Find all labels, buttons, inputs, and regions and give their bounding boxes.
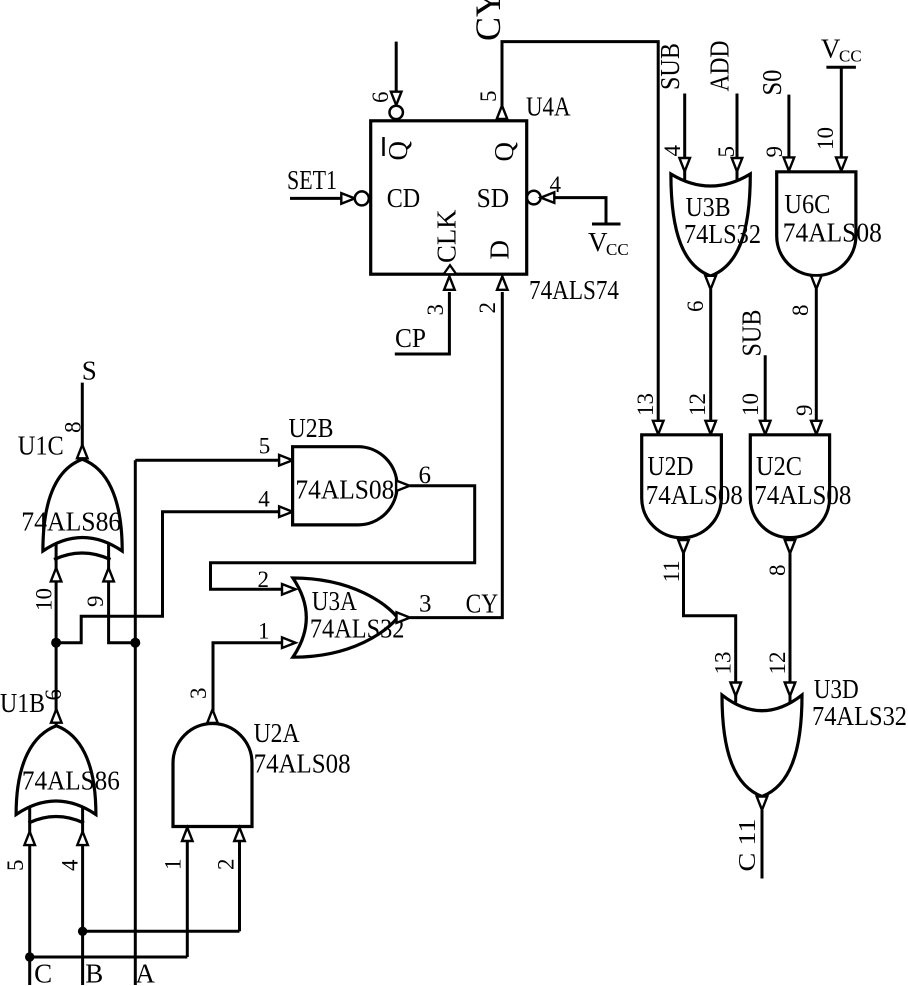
U4A label <box>526 92 571 122</box>
arrow U3A output <box>397 612 411 623</box>
Vcc bar top right <box>826 66 856 69</box>
pin number 11 U2D out <box>659 560 684 582</box>
arrow U2A output <box>207 710 218 724</box>
svg-text:U2C: U2C <box>756 451 802 481</box>
svg-text:13: 13 <box>711 652 736 675</box>
or-gate U3A body <box>293 578 398 657</box>
pin number 1 U3A <box>258 619 270 644</box>
svg-text:2: 2 <box>475 302 500 314</box>
pin number 9 U1C <box>83 596 108 608</box>
net label CY' <box>468 0 508 41</box>
svg-text:4: 4 <box>660 145 685 157</box>
arrow U1C output <box>77 445 88 459</box>
wire S0 to U6C pin9 <box>787 95 790 159</box>
svg-text:U3B: U3B <box>686 192 731 222</box>
wire A-line to U2B pin5 <box>135 459 281 462</box>
arrow U2A pin1 <box>182 828 193 842</box>
pin number 1 U2A <box>161 859 186 871</box>
xor-gate U1C body <box>43 459 122 551</box>
svg-text:CC: CC <box>839 47 862 66</box>
pin number 5 U2B <box>259 434 271 459</box>
svg-text:4: 4 <box>550 172 562 197</box>
and-gate U6C body <box>777 172 856 276</box>
arrow U6C output <box>811 276 822 290</box>
svg-text:D: D <box>485 240 515 260</box>
pin number 2 U2A <box>214 859 239 871</box>
arrow U2D pin12 <box>705 421 716 435</box>
svg-text:74ALS08: 74ALS08 <box>754 480 851 510</box>
wire U6C out to U2C pin9 <box>815 289 818 421</box>
svg-text:12: 12 <box>685 393 710 416</box>
wire ADD to U3B pin5 <box>736 94 739 181</box>
net label SUB <box>655 43 685 90</box>
arrow U1C pin10 <box>51 568 62 582</box>
svg-text:5: 5 <box>476 91 501 103</box>
arrow U2A pin2 <box>234 828 245 842</box>
wire U1C pin9 down <box>109 543 136 643</box>
pin number 6 <box>368 92 393 104</box>
Qbar output bubble <box>390 106 403 119</box>
pin number 5 U3B <box>714 146 739 158</box>
svg-text:Q: Q <box>383 141 413 161</box>
U3B label <box>686 192 731 222</box>
arrow Q output <box>497 106 508 120</box>
svg-text:8: 8 <box>788 305 813 317</box>
arrow into Qbar bubble <box>391 92 402 106</box>
U4A pin SD label <box>477 183 510 213</box>
U3A label <box>312 586 357 616</box>
svg-text:74LS32: 74LS32 <box>684 219 761 249</box>
D flip-flop U4A body <box>371 121 527 274</box>
arrow U2D output <box>678 540 689 554</box>
arrow U3A pin2 <box>282 584 296 595</box>
wire U1B pin4 B-line <box>81 807 84 986</box>
svg-text:74ALS86: 74ALS86 <box>22 766 120 796</box>
arrow U1B pin4 <box>77 832 88 846</box>
74ALS08 value label U6C <box>783 218 882 248</box>
svg-text:Q: Q <box>489 142 519 162</box>
U2C label <box>756 451 802 481</box>
net label SUB second <box>737 310 767 357</box>
junction dot C-line <box>25 952 34 961</box>
svg-text:ADD: ADD <box>705 41 735 92</box>
svg-text:6: 6 <box>683 301 708 313</box>
wire Vcc to U6C pin10 <box>840 67 843 158</box>
svg-text:C: C <box>34 959 52 986</box>
xor-gate U1B extra curve <box>29 817 85 824</box>
pin number 3 U3A out <box>419 591 432 618</box>
svg-text:2: 2 <box>214 859 239 871</box>
pin number 6 U1B out <box>41 689 66 701</box>
pin number 4 U1B <box>58 859 83 871</box>
U1B label <box>0 688 45 718</box>
pin number 13 U2D <box>633 393 658 416</box>
pin number 3 <box>423 304 448 316</box>
pin number 9 U2C <box>792 405 817 417</box>
pin number 2 U3A <box>258 567 270 592</box>
SD input bubble <box>527 191 541 205</box>
svg-text:74ALS08: 74ALS08 <box>783 218 882 248</box>
arrow U3D pin13 <box>730 683 741 697</box>
pin number 8 U6C out <box>788 305 813 317</box>
svg-text:11: 11 <box>659 560 684 582</box>
net label ADD <box>705 41 735 92</box>
svg-text:74ALS08: 74ALS08 <box>254 749 351 779</box>
wire S to U1C out <box>81 383 84 458</box>
74ALS32 value label U3A <box>310 614 405 644</box>
svg-text:74ALS32: 74ALS32 <box>310 614 405 644</box>
arrow U6C pin10 <box>836 157 847 171</box>
junction dot pin9/A-line <box>130 638 140 648</box>
arrow U2B output <box>396 481 410 492</box>
svg-text:9: 9 <box>762 146 787 158</box>
net label S <box>82 356 97 386</box>
wire U3D out C11 <box>761 810 764 879</box>
svg-text:U2D: U2D <box>648 451 694 481</box>
svg-text:SD: SD <box>477 183 510 213</box>
svg-text:9: 9 <box>792 405 817 417</box>
svg-text:5: 5 <box>714 146 739 158</box>
wire SUB2 to U2C pin10 <box>764 355 767 421</box>
svg-text:CY′: CY′ <box>468 0 508 41</box>
wire CY from U3A to D pin <box>410 292 502 618</box>
and-gate U2B body <box>293 447 398 525</box>
arrow U6C pin9 <box>784 157 795 171</box>
wire CP to CLK <box>395 292 450 354</box>
U2D label <box>648 451 694 481</box>
arrow U3D pin12 <box>785 683 796 697</box>
svg-text:3: 3 <box>186 688 211 700</box>
74ALS08 value label U2C <box>754 480 851 510</box>
net label C 11 <box>735 819 761 872</box>
svg-text:CP: CP <box>395 323 426 353</box>
svg-text:U2A: U2A <box>254 718 300 748</box>
svg-text:1: 1 <box>161 859 186 871</box>
svg-text:5: 5 <box>3 860 28 872</box>
arrow U2D pin13 <box>653 421 664 435</box>
arrow U2B pin4 <box>279 506 293 517</box>
arrow U3D output <box>757 797 768 811</box>
svg-text:CC: CC <box>606 240 629 259</box>
xor-gate U1C extra curve <box>54 553 111 560</box>
svg-text:V: V <box>821 34 841 64</box>
U6C label <box>784 189 830 219</box>
junction dot pin10/U1B/U2Bpin4 <box>51 638 61 648</box>
bus label C <box>34 959 52 986</box>
arrow U3A pin1 <box>282 637 296 648</box>
svg-text:A: A <box>135 959 155 986</box>
svg-text:U4A: U4A <box>526 92 571 122</box>
svg-text:13: 13 <box>633 393 658 416</box>
pin number 8 U2C out <box>765 565 790 577</box>
arrow U1C pin9 <box>103 568 114 582</box>
wire jog to U2B pin4 <box>56 512 281 643</box>
svg-text:U3D: U3D <box>814 674 859 704</box>
svg-text:C 11: C 11 <box>735 819 761 872</box>
svg-text:5: 5 <box>259 434 271 459</box>
arrow U3B pin5 <box>732 158 743 172</box>
svg-text:9: 9 <box>83 596 108 608</box>
svg-text:SUB: SUB <box>737 310 767 357</box>
74ALS08 value label U2D <box>646 480 743 510</box>
74ALS08 value label U2B <box>295 475 394 505</box>
arrow U1B output <box>51 709 62 723</box>
power label Vcc <box>588 227 629 259</box>
svg-text:74ALS74: 74ALS74 <box>529 275 619 305</box>
svg-text:U1C: U1C <box>18 431 64 461</box>
U2B label <box>289 413 334 443</box>
pin number 10 U6C <box>813 127 838 150</box>
svg-text:CY: CY <box>466 589 499 619</box>
or-gate U3B body <box>671 174 750 276</box>
wire U2A out to U3A pin1 stub <box>212 643 215 724</box>
svg-text:U1B: U1B <box>0 688 45 718</box>
wire SD to Vcc <box>555 198 607 224</box>
svg-text:8: 8 <box>765 565 790 577</box>
pin number 4 U3B <box>660 145 685 157</box>
svg-text:V: V <box>588 227 608 257</box>
svg-text:8: 8 <box>61 422 86 434</box>
svg-text:CD: CD <box>387 183 421 213</box>
arrow D input <box>497 276 508 290</box>
arrow CLK <box>444 276 455 290</box>
wire U1B pin5 C-line <box>28 807 31 986</box>
wire U2D out to U3D pin13 <box>684 554 736 703</box>
wire A-line vertical <box>134 460 137 985</box>
arrow U2C output <box>785 540 796 554</box>
svg-text:U3A: U3A <box>312 586 357 616</box>
pin number 2 <box>475 302 500 314</box>
svg-text:S: S <box>82 356 97 386</box>
U4A pin Q label <box>489 142 519 162</box>
wire Qbar pin 6 stub <box>395 42 398 92</box>
net label CY <box>466 589 499 619</box>
svg-text:74ALS86: 74ALS86 <box>21 507 121 537</box>
wire U2A out to U3A pin1 <box>213 643 283 723</box>
wire Q pin5 to CY' net to U2D pin13 <box>502 42 658 421</box>
pin number 4 U2B <box>258 487 270 512</box>
pin number 6 U3B out <box>683 301 708 313</box>
svg-text:3: 3 <box>419 591 432 618</box>
svg-text:SET1: SET1 <box>287 165 337 195</box>
Vcc bar at SD <box>592 223 621 226</box>
svg-text:4: 4 <box>258 487 270 512</box>
wire U3B out to U2D pin12 <box>709 289 712 421</box>
wire B jog to U2A pin2 <box>238 828 241 931</box>
svg-text:3: 3 <box>423 304 448 316</box>
pin number 5 U1B <box>3 860 28 872</box>
clock wedge on CLK pin <box>444 265 457 274</box>
arrow SET1 <box>341 193 355 204</box>
pin number 3 U2A out <box>186 688 211 700</box>
U4A pin CD label <box>387 183 421 213</box>
svg-text:74ALS08: 74ALS08 <box>295 475 394 505</box>
arrow U1B pin5 <box>24 832 35 846</box>
CD input bubble <box>355 191 369 205</box>
svg-text:4: 4 <box>58 859 83 871</box>
svg-text:10: 10 <box>813 127 838 150</box>
svg-text:B: B <box>85 959 103 986</box>
U4A pin D label <box>485 240 515 260</box>
arrow U2C pin10 <box>760 421 771 435</box>
pin number 10 U1C <box>32 588 57 611</box>
svg-text:U2B: U2B <box>289 413 334 443</box>
U4A pin CLK label <box>432 209 462 263</box>
74ALS86 value label U1B <box>22 766 120 796</box>
svg-text:10: 10 <box>738 393 763 416</box>
wire B jog horizontal <box>83 930 240 933</box>
svg-text:U6C: U6C <box>784 189 830 219</box>
pin number 4 <box>550 172 562 197</box>
wire SUB to U3B pin4 <box>683 94 686 181</box>
74ALS74 value label <box>529 275 619 305</box>
pin number 12 U2D <box>685 393 710 416</box>
net label SET1 <box>287 165 337 195</box>
74ALS32 value label U3D <box>812 701 907 731</box>
net label CP <box>395 323 426 353</box>
svg-text:CLK: CLK <box>432 209 462 263</box>
wire U2C out to U3D pin12 <box>789 554 792 703</box>
wire C jog to U2A pin1 <box>186 828 189 957</box>
U4A pin Qbar label <box>383 137 413 161</box>
pin number 12 U3D <box>765 652 790 675</box>
svg-text:12: 12 <box>765 652 790 675</box>
svg-text:1: 1 <box>258 619 270 644</box>
wire SET1 <box>290 197 342 200</box>
wire C jog horizontal <box>30 956 188 959</box>
and-gate U2C body <box>750 435 829 538</box>
arrow U3B pin4 <box>679 158 690 172</box>
arrow U2B pin5 <box>279 455 293 466</box>
and-gate U2A body <box>173 724 252 827</box>
net label S0 <box>757 70 787 96</box>
arrow U3B output <box>705 276 716 290</box>
pin number 10 U2C <box>738 393 763 416</box>
pin number 5 <box>476 91 501 103</box>
U2A label <box>254 718 300 748</box>
svg-text:74ALS32: 74ALS32 <box>812 701 907 731</box>
arrow SD <box>541 192 555 203</box>
svg-text:6: 6 <box>368 92 393 104</box>
svg-text:S0: S0 <box>757 70 787 96</box>
bus label B <box>85 959 103 986</box>
bus label A <box>135 959 155 986</box>
pin number 6 U2B out <box>419 462 432 489</box>
svg-text:10: 10 <box>32 588 57 611</box>
svg-text:SUB: SUB <box>655 43 685 90</box>
svg-text:74ALS08: 74ALS08 <box>646 480 743 510</box>
wire U2B out wrap to U3A pin2 <box>211 486 475 590</box>
pin number 9 U6C <box>762 146 787 158</box>
74ALS86 value label U1C <box>21 507 121 537</box>
U1C label <box>18 431 64 461</box>
power label Vcc top right <box>821 34 862 66</box>
junction dot B-line <box>78 927 87 936</box>
svg-text:2: 2 <box>258 567 270 592</box>
or-gate U3D body <box>722 695 802 797</box>
and-gate U2D body <box>642 435 722 538</box>
pin number 13 U3D <box>711 652 736 675</box>
74LS32 value label <box>684 219 761 249</box>
U3D label <box>814 674 859 704</box>
xor-gate U1B body <box>16 726 96 815</box>
wire U1C pin10 down to junction and U1B out <box>55 543 58 726</box>
arrow U2C pin9 <box>811 421 822 435</box>
pin number 8 U1C out <box>61 422 86 434</box>
74ALS08 value label U2A <box>254 749 351 779</box>
